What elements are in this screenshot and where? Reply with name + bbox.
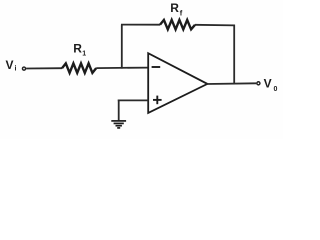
wire Vi to R1 bbox=[26, 67, 62, 69]
input terminal Vi bbox=[22, 67, 25, 70]
op-amp non-inverting input marker (+) bbox=[153, 96, 162, 105]
svg-text:i: i bbox=[15, 66, 17, 73]
wire Rf to right corner bbox=[195, 24, 235, 27]
svg-text:R: R bbox=[73, 42, 82, 56]
wire non-inverting input bbox=[118, 99, 149, 101]
wire feedback vertical right bbox=[233, 25, 235, 85]
svg-text:V: V bbox=[264, 76, 272, 90]
svg-text:1: 1 bbox=[82, 50, 86, 57]
wire output bbox=[207, 82, 257, 85]
wire R1 to inverting input bbox=[96, 67, 148, 70]
wire ground stem bbox=[118, 100, 120, 121]
label Vi bbox=[6, 58, 17, 73]
op-amp inverting input marker (-) bbox=[152, 66, 161, 68]
svg-text:V: V bbox=[6, 58, 14, 72]
output terminal Vo bbox=[257, 82, 260, 85]
wire feedback vertical left (node A) bbox=[121, 25, 123, 69]
label Rf bbox=[170, 1, 182, 18]
label Vo bbox=[264, 76, 278, 93]
wire top left to Rf bbox=[121, 24, 160, 26]
resistor R1 bbox=[62, 63, 96, 73]
svg-text:0: 0 bbox=[274, 86, 278, 93]
ground bbox=[111, 121, 126, 128]
resistor Rf bbox=[160, 20, 195, 30]
label R1 bbox=[73, 42, 86, 58]
svg-text:R: R bbox=[170, 1, 179, 15]
op-amp U1 bbox=[148, 53, 207, 113]
